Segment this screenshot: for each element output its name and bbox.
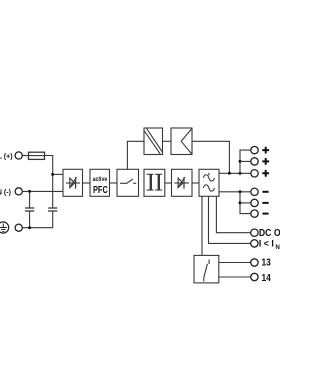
wire box B to output node <box>192 141 229 173</box>
svg-text:L (+): L (+) <box>0 154 13 161</box>
wire filter to I&lt;In <box>209 196 251 243</box>
rectifier U1 diode symbol <box>66 177 80 189</box>
wire L junction to rectifier <box>53 173 63 175</box>
terminal plus 1 <box>251 146 258 153</box>
filter sine symbol top <box>203 173 214 181</box>
fuse F1 <box>29 152 45 159</box>
terminal minus 3 <box>251 210 258 217</box>
wire PFC to switch <box>110 182 118 184</box>
PFC U2 box <box>90 169 110 196</box>
wire box A to box B <box>163 140 172 142</box>
label minus 1 <box>262 191 268 193</box>
svg-text:14: 14 <box>262 272 272 283</box>
filter sine symbol bottom <box>203 185 214 191</box>
wire N junction down to C1 <box>29 191 31 208</box>
wire plus bus middle branch <box>240 160 251 162</box>
wire transformer to diode <box>165 182 172 184</box>
svg-text:DC OK: DC OK <box>259 227 280 238</box>
label I&lt;In <box>259 238 281 251</box>
plus bus <box>240 150 251 173</box>
feedback box A (regulator) <box>144 128 163 155</box>
PE symbol <box>0 222 9 233</box>
label plus 3 <box>262 170 269 177</box>
transformer T1 windings <box>147 174 163 190</box>
svg-text:I < I: I < I <box>259 238 274 248</box>
node plus bus middle <box>239 160 242 163</box>
node N/C1 junction <box>28 190 31 193</box>
terminal L <box>15 152 22 159</box>
rectifier U1 box <box>63 169 83 196</box>
feedback box B chevron <box>181 129 192 154</box>
wire rectifier to PFC <box>83 182 91 184</box>
terminal minus 1 <box>251 188 258 195</box>
transformer T1 box <box>144 169 165 196</box>
label plus 1 <box>262 147 269 154</box>
node L/rectifier junction <box>51 173 54 176</box>
node minus bus feed <box>239 190 242 193</box>
capacitor C1 <box>25 208 34 211</box>
svg-text:active: active <box>93 176 108 183</box>
wire N to rectifier <box>22 190 63 192</box>
terminal N <box>15 188 22 195</box>
switch S1 symbol <box>120 179 136 183</box>
svg-text:13: 13 <box>262 257 271 268</box>
terminal plus 3 <box>251 170 258 177</box>
wire relay to 13 <box>219 262 251 264</box>
wire filter to minus bus <box>219 191 251 193</box>
wire switch to feedback riser <box>127 141 144 169</box>
diode D1 box <box>172 169 193 196</box>
wire filter to plus bus <box>219 172 251 174</box>
wire diode to filter <box>192 182 199 184</box>
svg-text:N (-): N (-) <box>0 190 11 197</box>
output filter box <box>199 169 219 196</box>
svg-text:N: N <box>275 244 280 251</box>
minus bus <box>240 192 251 214</box>
terminal plus 2 <box>251 158 258 165</box>
terminal PE <box>15 224 22 231</box>
label minus 2 <box>262 202 268 204</box>
terminal 13 <box>251 259 258 266</box>
wire L terminal to fuse <box>22 155 28 157</box>
wire C2 to ground rail <box>22 211 52 228</box>
wire minus bus middle branch <box>240 202 251 204</box>
relay K1 box <box>194 255 219 283</box>
svg-text:PFC: PFC <box>93 185 108 196</box>
wire relay to 14 <box>219 276 251 278</box>
node plus bus feed <box>239 172 242 175</box>
node minus bus middle <box>239 201 242 204</box>
feedback box B (optocoupler) <box>171 128 192 155</box>
wire C1 to ground rail <box>29 211 31 228</box>
switch S1 box <box>117 169 139 196</box>
wire filter to DC OK <box>216 196 250 232</box>
diode D1 symbol <box>175 177 190 189</box>
feedback box A diagonals <box>144 129 162 154</box>
relay K1 contact symbol <box>204 260 209 282</box>
wire fuse to rectifier input (L branch) <box>45 156 53 209</box>
label plus 2 <box>262 158 269 165</box>
terminal I&lt;In <box>251 240 258 247</box>
terminal DC OK <box>251 229 258 236</box>
node ground rail / C1 junction <box>28 226 31 229</box>
wire filter to relay <box>201 196 203 255</box>
node feedback/plus junction <box>228 172 231 175</box>
terminal minus 2 <box>251 199 258 206</box>
capacitor C2 <box>48 208 57 211</box>
terminal 14 <box>251 273 258 280</box>
label minus 3 <box>262 213 268 215</box>
